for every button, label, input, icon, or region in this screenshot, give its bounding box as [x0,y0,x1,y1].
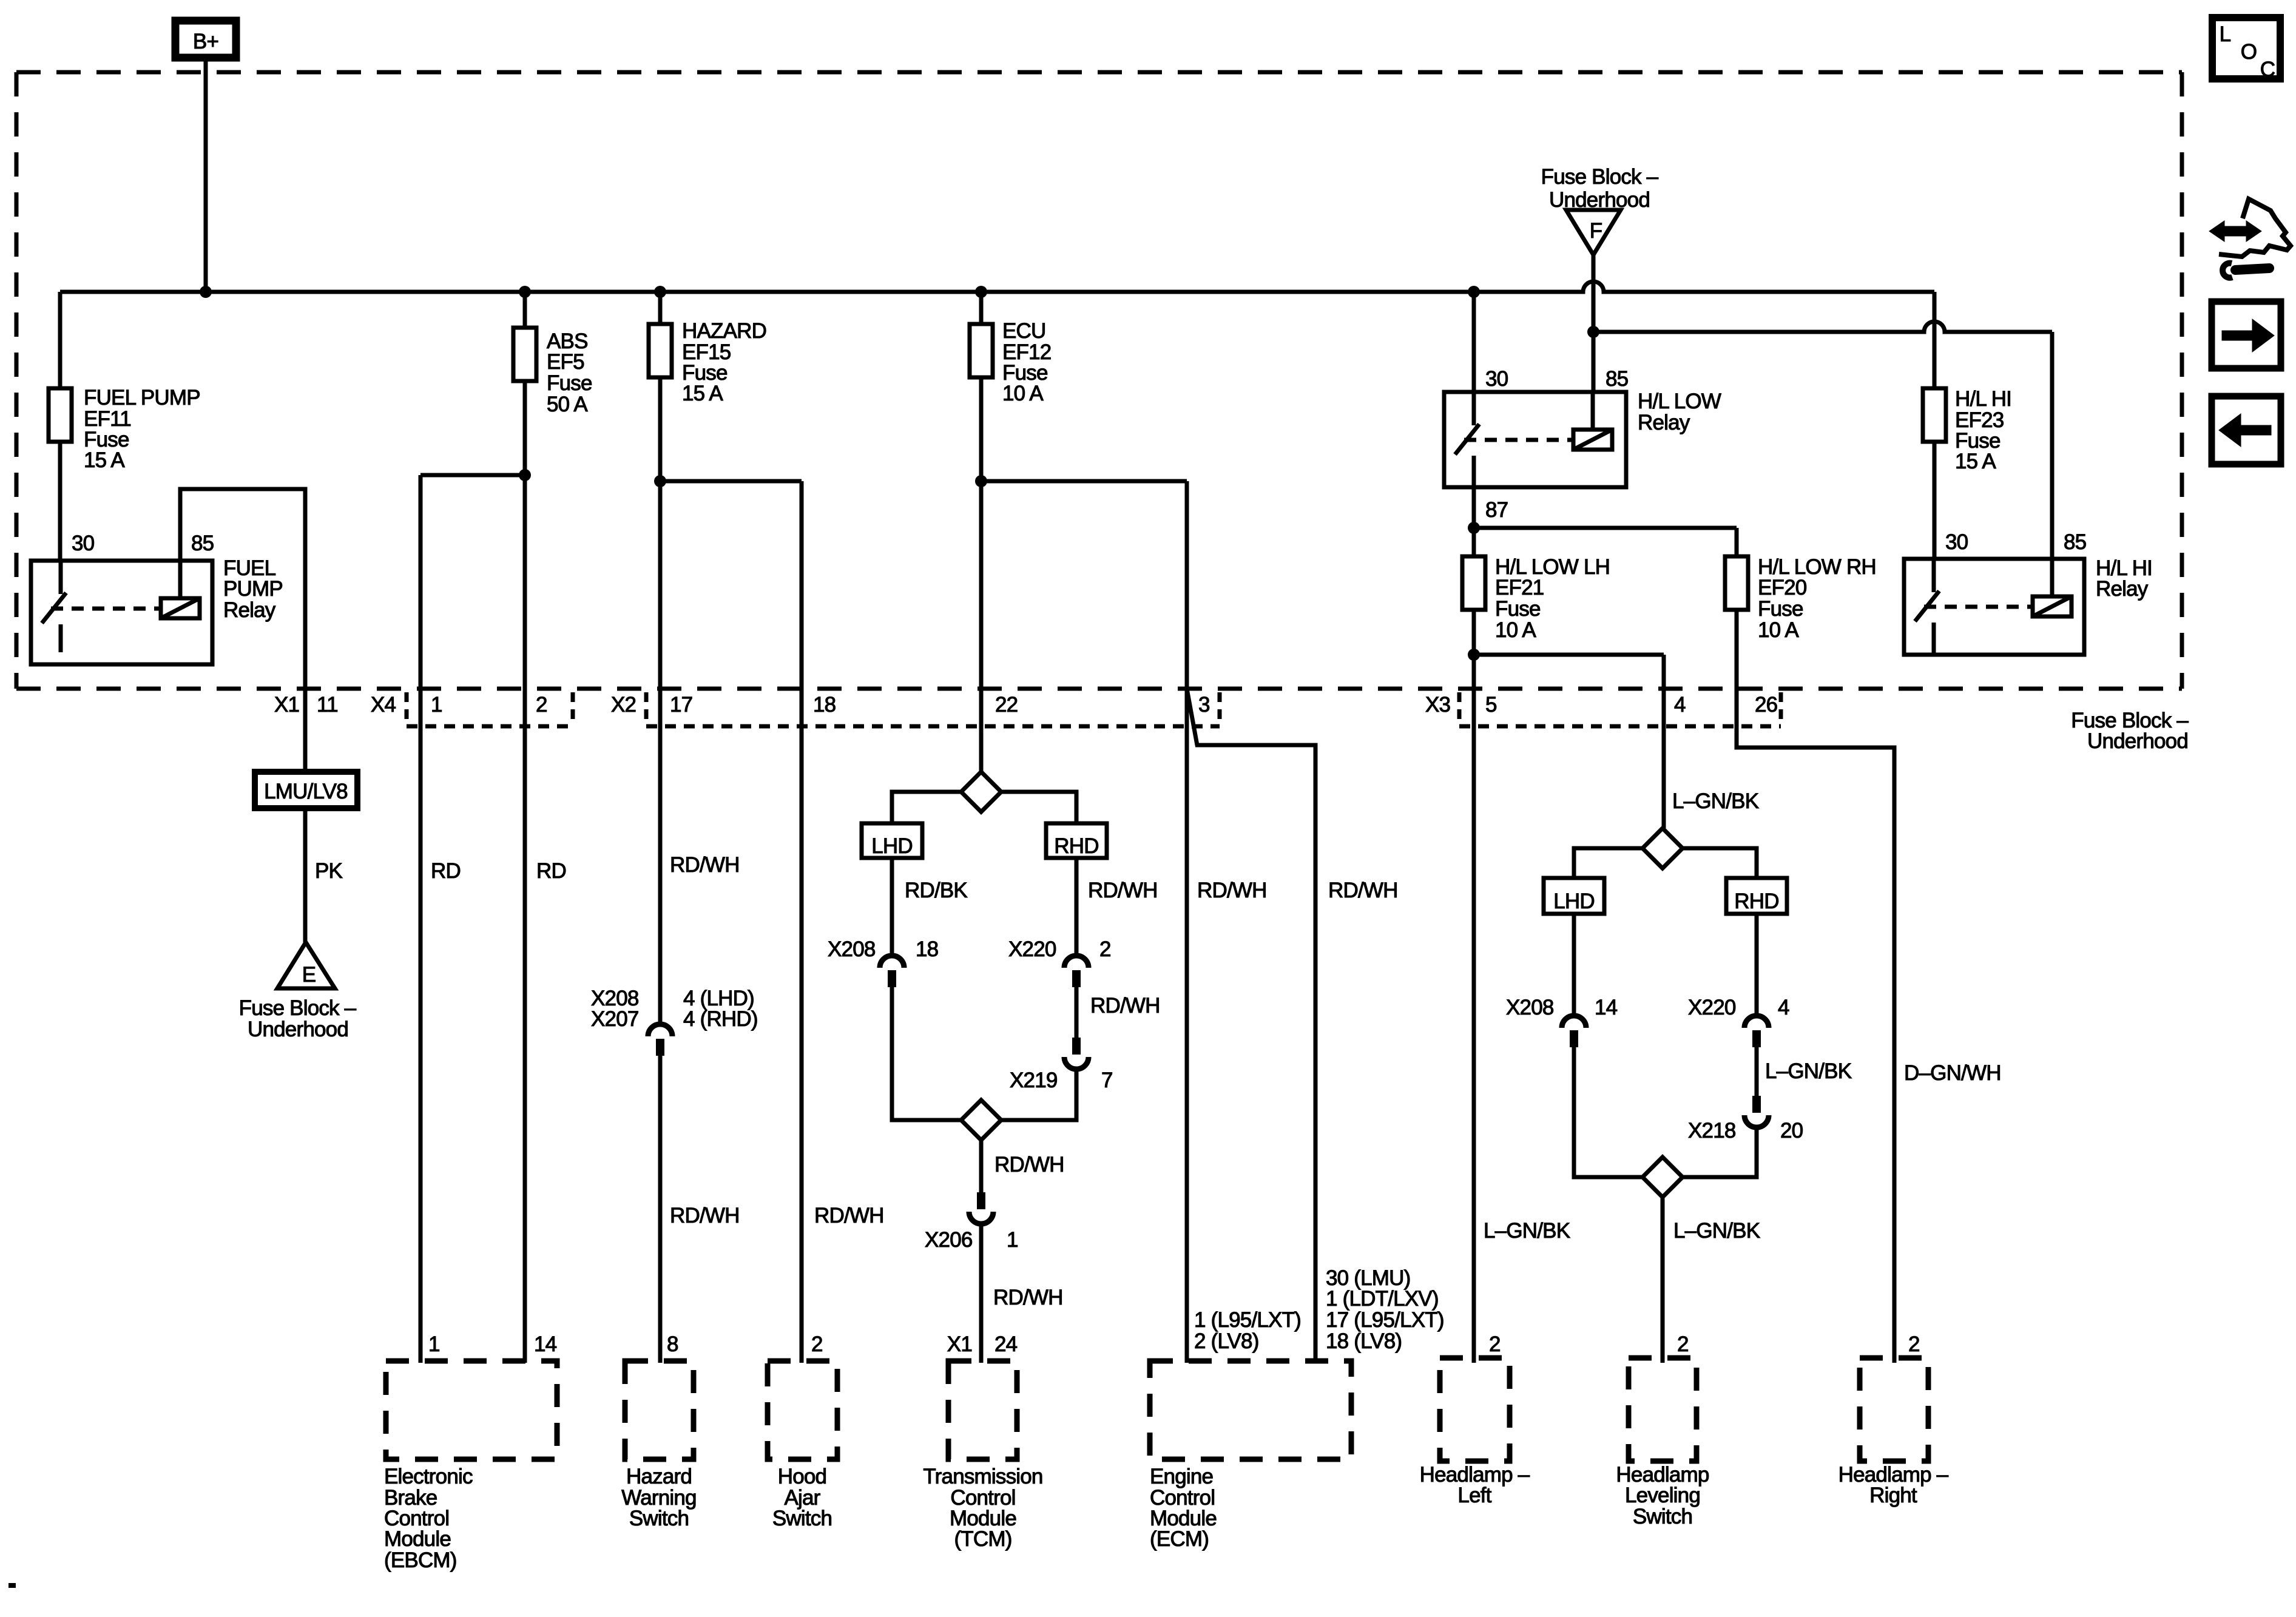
svg-text:Hood: Hood [778,1465,826,1488]
svg-text:30: 30 [1945,530,1968,554]
svg-text:RD/BK: RD/BK [905,879,967,902]
svg-text:X219: X219 [1010,1068,1058,1092]
svg-text:X4: X4 [371,693,396,717]
svg-text:10 A: 10 A [1758,618,1799,642]
svg-text:Switch: Switch [772,1507,832,1530]
svg-text:3: 3 [1198,693,1210,717]
svg-text:L: L [2220,22,2231,46]
svg-text:L–GN/BK: L–GN/BK [1484,1219,1570,1243]
svg-text:Fuse: Fuse [1758,597,1803,621]
svg-text:RD: RD [431,859,461,883]
svg-text:1: 1 [431,693,442,717]
svg-text:Relay: Relay [2096,577,2149,601]
svg-text:Fuse Block –: Fuse Block – [239,996,357,1020]
svg-text:Relay: Relay [223,598,276,622]
svg-text:18: 18 [916,937,938,961]
svg-text:18 (LV8): 18 (LV8) [1326,1329,1402,1353]
svg-text:87: 87 [1485,498,1508,522]
svg-text:Switch: Switch [629,1507,689,1530]
svg-text:Engine: Engine [1150,1465,1213,1488]
svg-text:X3: X3 [1425,693,1450,717]
svg-text:RD/WH: RD/WH [1197,879,1267,902]
svg-text:(EBCM): (EBCM) [384,1548,457,1572]
svg-text:Module: Module [384,1527,451,1551]
svg-text:RD: RD [536,859,566,883]
svg-text:2: 2 [536,693,547,717]
svg-text:10 A: 10 A [1495,618,1536,642]
svg-text:FUEL PUMP: FUEL PUMP [84,386,200,410]
svg-text:1: 1 [1007,1228,1018,1252]
svg-text:L–GN/BK: L–GN/BK [1672,789,1759,813]
svg-text:F: F [1590,219,1602,243]
svg-text:18: 18 [813,693,836,717]
svg-text:O: O [2241,40,2257,64]
svg-text:10 A: 10 A [1002,382,1044,405]
svg-text:E: E [302,963,316,987]
svg-text:2: 2 [811,1332,823,1356]
svg-text:RD/WH: RD/WH [1328,879,1398,902]
svg-text:14: 14 [1595,996,1618,1019]
svg-text:Fuse Block –: Fuse Block – [1541,165,1659,189]
svg-text:H/L LOW: H/L LOW [1638,390,1721,413]
svg-text:Transmission: Transmission [923,1465,1042,1488]
svg-text:LMU/LV8: LMU/LV8 [264,780,348,803]
svg-text:7: 7 [1101,1068,1113,1092]
svg-text:EF20: EF20 [1758,576,1807,599]
svg-text:RD/WH: RD/WH [814,1204,884,1227]
svg-text:H/L HI: H/L HI [1955,387,2011,411]
svg-text:30: 30 [1485,367,1508,391]
svg-text:EF21: EF21 [1495,576,1544,599]
svg-text:26: 26 [1755,693,1777,717]
svg-text:11: 11 [317,693,338,717]
svg-text:L–GN/BK: L–GN/BK [1673,1219,1760,1243]
svg-text:Fuse: Fuse [547,371,592,395]
svg-text:5: 5 [1485,693,1497,717]
svg-text:X1: X1 [274,693,299,717]
svg-text:15 A: 15 A [84,448,125,472]
svg-text:LHD: LHD [1553,890,1595,913]
svg-text:PK: PK [315,859,343,883]
svg-text:Underhood: Underhood [248,1018,348,1041]
svg-text:X220: X220 [1688,996,1736,1019]
svg-text:D–GN/WH: D–GN/WH [1904,1061,2001,1085]
svg-text:X1: X1 [947,1332,972,1356]
svg-text:4: 4 [1778,996,1789,1019]
svg-text:1 (LDT/LXV): 1 (LDT/LXV) [1326,1287,1439,1311]
svg-text:4: 4 [1674,693,1686,717]
svg-text:Hazard: Hazard [626,1465,692,1488]
svg-text:2 (LV8): 2 (LV8) [1194,1329,1259,1353]
svg-text:2: 2 [1099,937,1111,961]
svg-text:2: 2 [1489,1332,1501,1356]
svg-text:B+: B+ [193,30,218,53]
svg-text:17 (L95/LXT): 17 (L95/LXT) [1326,1308,1444,1332]
svg-text:4 (RHD): 4 (RHD) [683,1007,758,1031]
svg-text:Relay: Relay [1638,411,1690,434]
svg-text:(ECM): (ECM) [1150,1527,1209,1551]
svg-text:X207: X207 [591,1007,639,1031]
svg-text:EF5: EF5 [547,350,584,374]
svg-text:RD/WH: RD/WH [993,1286,1063,1309]
svg-text:X218: X218 [1688,1119,1736,1143]
svg-text:30: 30 [72,532,95,555]
svg-text:X220: X220 [1008,937,1056,961]
svg-text:1: 1 [428,1332,440,1356]
svg-text:HAZARD: HAZARD [682,319,766,343]
svg-text:X208: X208 [1506,996,1554,1019]
svg-text:15 A: 15 A [682,382,723,405]
svg-text:22: 22 [995,693,1018,717]
svg-text:RHD: RHD [1734,890,1778,913]
svg-text:15 A: 15 A [1955,450,1996,473]
svg-text:PUMP: PUMP [223,577,283,601]
svg-text:Leveling: Leveling [1625,1484,1700,1507]
svg-text:C: C [2260,58,2275,81]
svg-text:Left: Left [1457,1484,1491,1507]
svg-text:Electronic: Electronic [384,1465,473,1488]
svg-text:85: 85 [2064,530,2086,554]
svg-text:24: 24 [994,1332,1018,1356]
svg-text:RD/WH: RD/WH [670,853,740,877]
svg-text:20: 20 [1780,1119,1803,1143]
svg-text:8: 8 [667,1332,678,1356]
svg-text:L–GN/BK: L–GN/BK [1765,1059,1852,1083]
svg-text:X206: X206 [925,1228,973,1252]
svg-text:85: 85 [191,532,214,555]
svg-text:Switch: Switch [1633,1505,1692,1528]
svg-text:2: 2 [1677,1332,1689,1356]
svg-text:RD/WH: RD/WH [994,1153,1064,1176]
svg-text:Underhood: Underhood [2087,729,2188,753]
svg-text:Fuse: Fuse [1495,597,1541,621]
svg-text:LHD: LHD [871,834,913,858]
svg-text:2: 2 [1908,1332,1920,1356]
svg-text:Right: Right [1869,1484,1917,1507]
svg-text:ECU: ECU [1002,319,1046,343]
svg-text:50 A: 50 A [547,393,588,416]
svg-text:1 (L95/LXT): 1 (L95/LXT) [1194,1308,1301,1332]
svg-text:Underhood: Underhood [1549,188,1650,212]
svg-text:RHD: RHD [1054,834,1098,858]
svg-text:X2: X2 [611,693,636,717]
svg-text:RD/WH: RD/WH [1088,879,1158,902]
svg-text:85: 85 [1606,367,1628,391]
svg-text:(TCM): (TCM) [954,1527,1011,1551]
svg-text:X208: X208 [828,937,876,961]
svg-text:14: 14 [534,1332,557,1356]
svg-text:RD/WH: RD/WH [670,1204,740,1227]
svg-text:RD/WH: RD/WH [1090,994,1160,1018]
svg-text:17: 17 [670,693,692,717]
